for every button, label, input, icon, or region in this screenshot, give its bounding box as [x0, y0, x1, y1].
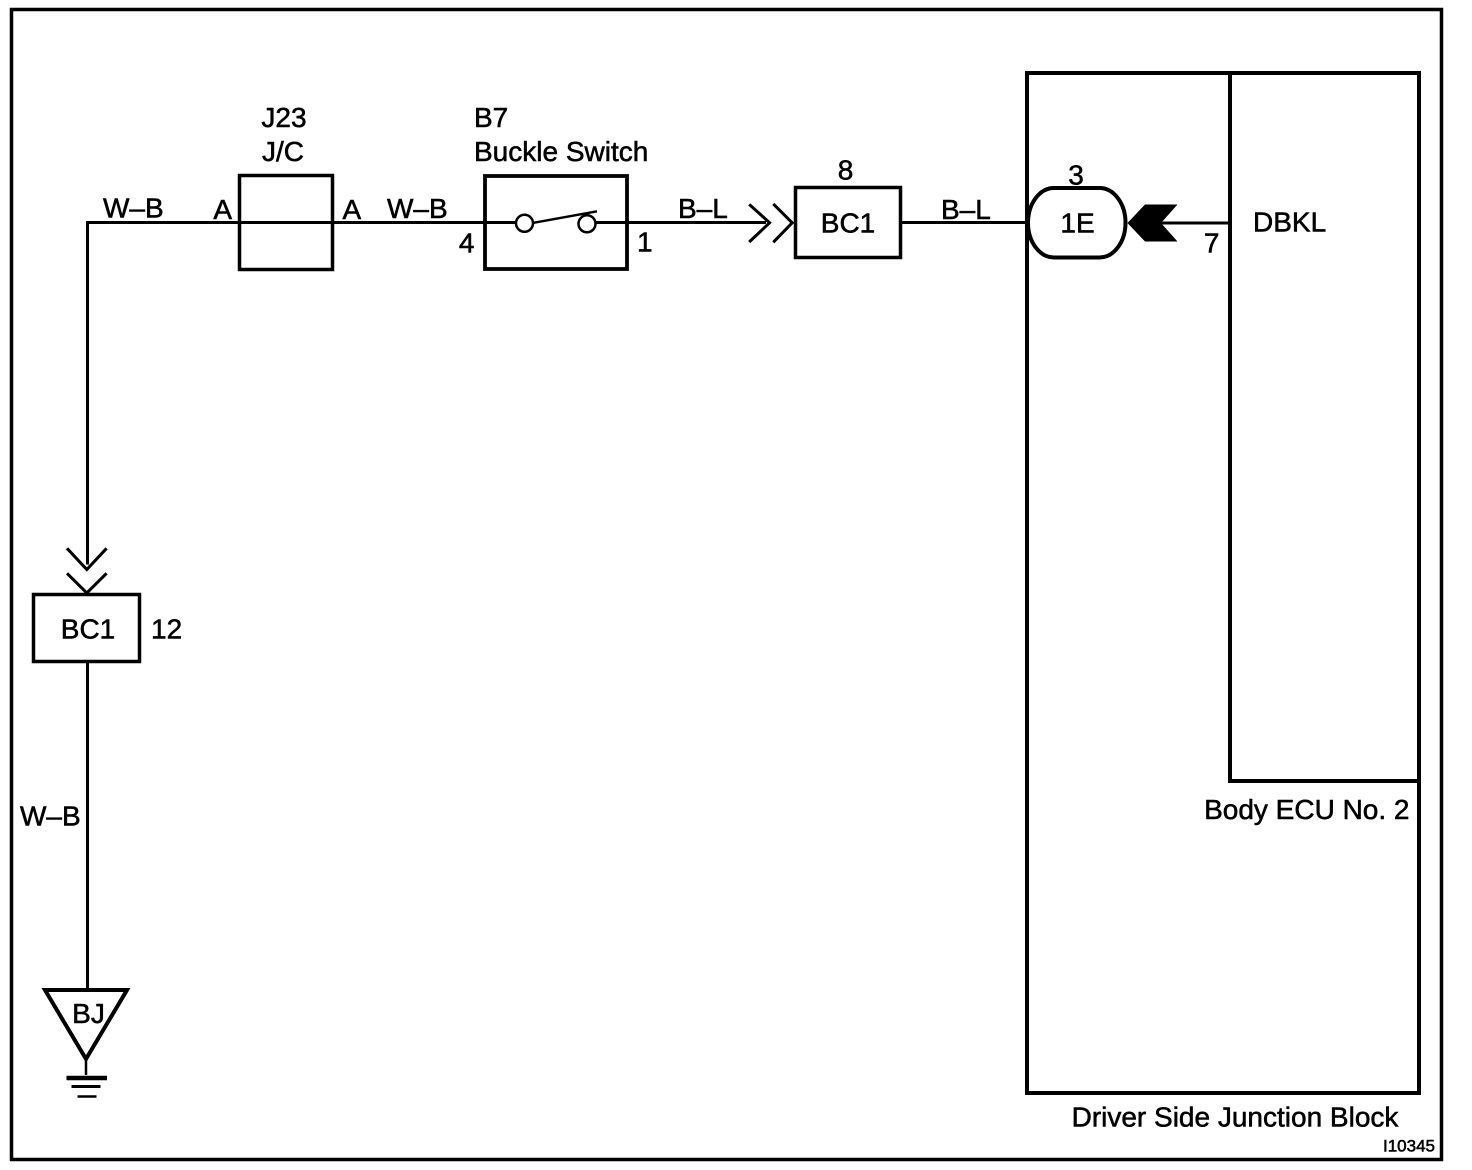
- label Buckle Switch: [474, 136, 648, 167]
- connector 1E stadium: [1028, 188, 1126, 258]
- svg-text:DBKL: DBKL: [1253, 207, 1326, 238]
- buckle switch B7 box: [485, 176, 627, 269]
- wire B-L from BC1 to 1E connector: [900, 221, 1028, 224]
- label J/C: [262, 136, 304, 167]
- label BJ: [72, 998, 105, 1029]
- wire label B-L left: [678, 193, 728, 224]
- Body ECU No. 2 box: [1230, 73, 1419, 781]
- svg-text:BC1: BC1: [61, 614, 115, 645]
- svg-text:7: 7: [1204, 228, 1220, 259]
- svg-text:3: 3: [1068, 160, 1084, 191]
- label Driver Side Junction Block: [1072, 1102, 1400, 1133]
- label BC1 top: [821, 208, 875, 239]
- switch contact circle right: [579, 215, 596, 232]
- svg-text:A: A: [213, 194, 232, 225]
- svg-text:Buckle Switch: Buckle Switch: [474, 136, 648, 167]
- ground symbol: [67, 1059, 108, 1097]
- label DBKL: [1253, 207, 1326, 238]
- down chevrons on left wire: [67, 548, 107, 593]
- black arrow into 1E: [1128, 205, 1178, 242]
- wire label B-L right: [941, 194, 991, 225]
- svg-text:BC1: BC1: [821, 208, 875, 239]
- svg-text:W–B: W–B: [103, 193, 164, 224]
- pin 1: [637, 227, 653, 258]
- svg-text:8: 8: [838, 155, 854, 186]
- pin 12: [151, 614, 182, 645]
- switch lever: [534, 211, 598, 223]
- pin 7: [1204, 228, 1220, 259]
- svg-text:W–B: W–B: [387, 193, 448, 224]
- Driver Side Junction Block box: [1027, 73, 1419, 1093]
- svg-text:BJ: BJ: [72, 998, 105, 1029]
- pin 4: [459, 228, 475, 259]
- pin 3: [1068, 160, 1084, 191]
- wire label W-B top left: [103, 193, 164, 224]
- svg-text:I10345: I10345: [1383, 1137, 1435, 1156]
- pin A left of J23: [213, 194, 232, 225]
- wire DBKL from junction inner edge to arrow: [1159, 222, 1230, 225]
- wire W-B horizontal from left corner to buckle switch: [88, 221, 517, 224]
- connector BC1 (pin 12) box: [34, 595, 140, 662]
- connector chevrons right: [749, 204, 792, 242]
- svg-text:B–L: B–L: [678, 193, 728, 224]
- svg-text:Body ECU No. 2: Body ECU No. 2: [1204, 794, 1409, 825]
- label 1E: [1060, 208, 1094, 239]
- wire B-L from switch to connector chevrons: [596, 221, 767, 224]
- connector BC1 (pin 8) box: [796, 188, 901, 258]
- svg-text:B7: B7: [474, 102, 508, 133]
- wire W-B vertical left drop: [86, 221, 89, 565]
- wire label W-B bottom: [20, 801, 81, 832]
- label BC1 bottom: [61, 614, 115, 645]
- svg-text:B–L: B–L: [941, 194, 991, 225]
- pin A right of J23: [343, 194, 362, 225]
- svg-text:J23: J23: [261, 102, 306, 133]
- figure number I10345: [1383, 1137, 1435, 1156]
- svg-text:12: 12: [151, 614, 182, 645]
- svg-text:Driver Side Junction Block: Driver Side Junction Block: [1072, 1102, 1400, 1133]
- wire from BC1 (12) down to ground: [86, 662, 89, 990]
- svg-text:4: 4: [459, 228, 475, 259]
- svg-text:J/C: J/C: [262, 136, 304, 167]
- switch contact circle left: [516, 215, 533, 232]
- label Body ECU No. 2: [1204, 794, 1409, 825]
- label B7: [474, 102, 508, 133]
- svg-text:1E: 1E: [1060, 208, 1094, 239]
- label J23: [261, 102, 306, 133]
- junction box J23: [240, 176, 333, 270]
- pin 8: [838, 155, 854, 186]
- ground triangle BJ: [45, 990, 127, 1059]
- svg-text:1: 1: [637, 227, 653, 258]
- svg-text:A: A: [343, 194, 362, 225]
- svg-text:W–B: W–B: [20, 801, 81, 832]
- wire label W-B middle: [387, 193, 448, 224]
